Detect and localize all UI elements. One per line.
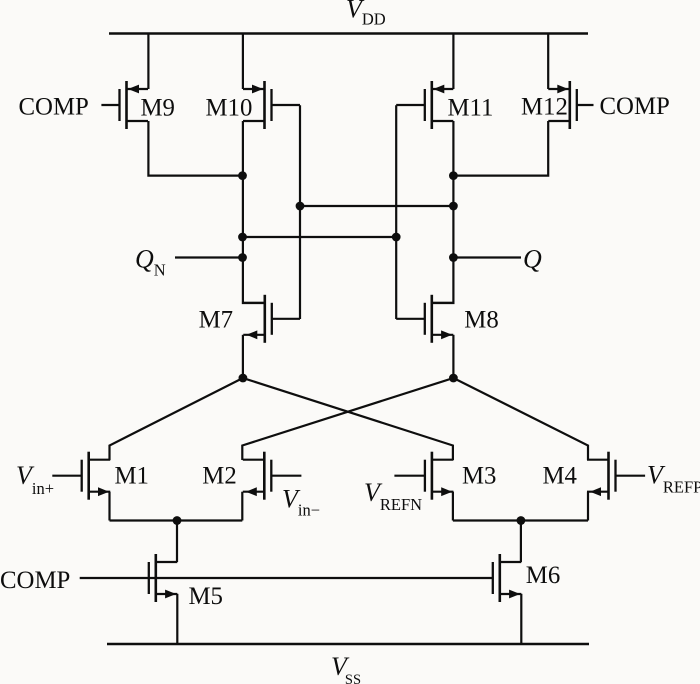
transistor M12: channel bar — [568, 81, 571, 129]
transistor M4: gate lead — [616, 475, 646, 477]
svg-text:COMP: COMP — [600, 93, 670, 120]
svg-text:VREFP: VREFP — [647, 461, 700, 497]
transistor M8: source arrow — [441, 330, 452, 339]
wire: node Q output — [453, 256, 521, 258]
node A: M7 source / M1 M3 drains — [239, 374, 248, 383]
svg-text:M4: M4 — [543, 463, 578, 490]
transistor M11: source arrow — [433, 85, 444, 94]
transistor M8: channel bar — [430, 295, 433, 343]
transistor M4: gate bar — [614, 460, 616, 492]
transistor M1: gate bar — [81, 460, 83, 492]
wire: left tail to M5 drain — [176, 521, 178, 563]
transistor M7: gate lead — [272, 318, 300, 320]
svg-text:Q: Q — [523, 245, 542, 274]
transistor M8: gate lead — [396, 318, 425, 320]
junction: gate column at cross wire — [296, 202, 305, 211]
transistor M9: channel bar — [125, 81, 128, 129]
wire: M2 source down — [241, 492, 243, 521]
wire: M12 source to VDD — [547, 34, 549, 90]
wire: M10/M7 gates to node Q — [300, 205, 453, 207]
junction: Q output tap — [449, 253, 458, 262]
transistor M8: top lead — [432, 302, 454, 304]
junction: left tail to M5 — [173, 516, 182, 525]
transistor M2: channel bar — [263, 452, 266, 500]
svg-text:VSS: VSS — [331, 652, 361, 684]
transistor M7: gate bar — [271, 303, 273, 335]
transistor M2: gate lead — [271, 475, 301, 477]
wire: node A to M3 drain — [243, 378, 453, 460]
wire: COMP to M5 and M6 gates — [80, 577, 493, 579]
svg-text:M7: M7 — [199, 307, 233, 334]
transistor M8: bottom lead — [432, 334, 454, 336]
svg-text:VDD: VDD — [346, 0, 386, 29]
transistor M1: bottom lead — [89, 491, 111, 493]
transistor M6: bottom lead — [500, 593, 522, 595]
wire: node QN to M11/M8 gates — [243, 236, 397, 238]
transistor M2: bottom lead — [243, 491, 264, 493]
transistor M3: top lead — [432, 459, 454, 461]
transistor M5: bottom lead — [156, 593, 178, 595]
svg-text:QN: QN — [135, 245, 166, 280]
transistor M10: top lead — [243, 88, 265, 90]
transistor M2: source arrow — [246, 487, 257, 496]
transistor M12: top lead — [548, 88, 570, 90]
transistor M9: source arrow — [128, 85, 139, 94]
svg-text:M8: M8 — [464, 307, 498, 334]
wire: M8 source to right tail node — [452, 335, 454, 378]
svg-text:VREFN: VREFN — [364, 478, 422, 514]
transistor M1: top lead — [89, 459, 111, 461]
transistor M11: top lead — [432, 88, 454, 90]
wire: node A to M1 drain — [110, 378, 243, 460]
junction: M12 drain at Q column — [449, 171, 458, 180]
transistor M3: gate bar — [424, 460, 426, 492]
transistor M3: source arrow — [441, 487, 452, 496]
wire: M10 gate column down to M7 gate — [299, 105, 301, 319]
wire: M1 M2 common source — [110, 519, 243, 521]
transistor M4: channel bar — [607, 452, 610, 500]
wire: node B to M2 drain — [242, 378, 453, 460]
transistor M9: bottom lead — [127, 120, 149, 122]
transistor M5: channel bar — [155, 554, 158, 602]
svg-text:M6: M6 — [526, 562, 560, 589]
wire: M9 drain to node QN — [148, 121, 242, 176]
transistor M11: bottom lead — [432, 120, 454, 122]
wire: M12 drain to node Q — [453, 121, 548, 176]
transistor M7: bottom lead — [243, 334, 264, 336]
wire: M10 source to VDD — [242, 34, 244, 90]
transistor M5: source arrow — [165, 590, 176, 599]
transistor M12: source arrow — [557, 85, 568, 94]
transistor M4: bottom lead — [587, 491, 609, 493]
wire: M3 M4 common source — [453, 519, 588, 521]
junction: gate column at cross wire — [392, 233, 401, 242]
wire: M1 source down — [108, 492, 110, 521]
transistor M6: top lead — [500, 561, 522, 563]
transistor M10: gate bar — [270, 89, 272, 121]
wire: node QN output — [175, 256, 243, 258]
junction: M9 drain at QN column — [238, 171, 247, 180]
transistor M6: channel bar — [498, 554, 501, 602]
svg-text:M10: M10 — [206, 95, 253, 122]
wire: VSS rail — [107, 643, 589, 646]
junction: right tail to M6 — [517, 516, 526, 525]
transistor M11: gate bar — [424, 89, 426, 121]
wire: M6 source to VSS — [520, 594, 522, 644]
wire: right tail to M6 drain — [520, 521, 522, 563]
transistor M6: gate bar — [492, 562, 494, 594]
transistor M9: gate bar — [118, 89, 120, 121]
transistor M3: bottom lead — [432, 491, 454, 493]
wire: M10 drain / node QN column to M7 drain — [243, 121, 265, 303]
junction: cross wire at Q column — [449, 202, 458, 211]
wire: M11 source to VDD — [452, 34, 454, 90]
svg-text:COMP: COMP — [0, 567, 70, 594]
transistor M9: gate lead — [101, 104, 119, 106]
wire: M11 drain / node Q column to M8 drain — [432, 121, 454, 303]
wire: M7 source to left tail node — [242, 335, 244, 378]
svg-text:M2: M2 — [202, 463, 236, 490]
transistor M6: gate lead — [491, 577, 494, 579]
wire: M11 gate column down to M8 gate — [395, 105, 397, 319]
junction: cross wire at QN column — [238, 233, 247, 242]
svg-text:M12: M12 — [521, 94, 568, 121]
transistor M1: source arrow — [98, 487, 109, 496]
transistor M10: gate lead — [272, 104, 301, 106]
wire: M4 source down — [587, 492, 589, 521]
svg-text:M3: M3 — [462, 463, 496, 490]
svg-text:M5: M5 — [189, 583, 223, 610]
wire: node B to M4 drain — [453, 378, 588, 460]
node B: M8 source / M2 M4 drains — [449, 374, 458, 383]
transistor M3: gate lead — [394, 475, 425, 477]
transistor M7: top lead — [243, 302, 264, 304]
transistor M5: gate lead — [148, 577, 150, 579]
transistor M9: top lead — [127, 88, 149, 90]
junction: QN output tap — [238, 253, 247, 262]
wire: M5 source to VSS — [176, 594, 178, 644]
transistor M10: bottom lead — [243, 120, 265, 122]
transistor M7: channel bar — [263, 295, 266, 343]
svg-text:M11: M11 — [448, 95, 494, 122]
transistor M4: top lead — [587, 459, 609, 461]
wire: VDD rail — [109, 32, 588, 35]
svg-text:M9: M9 — [141, 95, 175, 122]
transistor M6: source arrow — [509, 590, 520, 599]
wire: M3 source down — [452, 492, 454, 521]
transistor M4: source arrow — [590, 487, 601, 496]
transistor M7: source arrow — [246, 330, 257, 339]
transistor M3: channel bar — [431, 452, 434, 500]
transistor M5: top lead — [156, 561, 178, 563]
transistor M12: bottom lead — [548, 120, 570, 122]
transistor M2: gate bar — [270, 460, 272, 492]
svg-text:Vin+: Vin+ — [16, 461, 54, 498]
svg-text:M1: M1 — [115, 463, 149, 490]
transistor M10: channel bar — [263, 81, 266, 129]
transistor M12: gate bar — [576, 89, 578, 121]
transistor M11: gate lead — [396, 104, 425, 106]
wire: M9 source to VDD — [147, 34, 149, 90]
transistor M11: channel bar — [430, 81, 433, 129]
transistor M8: gate bar — [424, 303, 426, 335]
transistor M1: channel bar — [87, 452, 90, 500]
transistor M10: source arrow — [252, 85, 263, 94]
transistor M12: gate lead — [577, 104, 594, 106]
svg-text:COMP: COMP — [19, 93, 89, 120]
transistor M5: gate bar — [148, 562, 150, 594]
svg-text:Vin−: Vin− — [282, 485, 320, 520]
transistor M2: top lead — [243, 459, 264, 461]
transistor M1: gate lead — [52, 475, 81, 477]
